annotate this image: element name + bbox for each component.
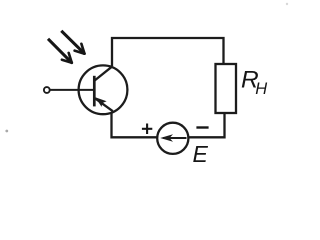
base terminal [44,87,50,93]
speck artifact left [5,130,8,133]
collector line [95,66,113,80]
plus sign [142,128,152,130]
source arrow [163,137,187,139]
phototransistor VT circle [79,65,128,114]
base bar [93,76,96,107]
resistor RH [216,64,237,113]
wire resistor bottom to source [188,113,225,137]
emitter arrow (PNP, points to base) [95,97,106,107]
emitter line [95,98,113,111]
wire source to emitter [112,112,159,137]
light arrow 2 (lower) [48,39,72,63]
wire top: collector to resistor [112,38,224,66]
source E circle [157,123,188,154]
minus sign [196,126,208,128]
base lead wire [50,89,94,91]
light arrow 1 (upper) [61,31,84,54]
speck artifact top right [286,3,288,5]
svg-text:E: E [193,141,209,167]
svg-text:H: H [255,80,267,98]
